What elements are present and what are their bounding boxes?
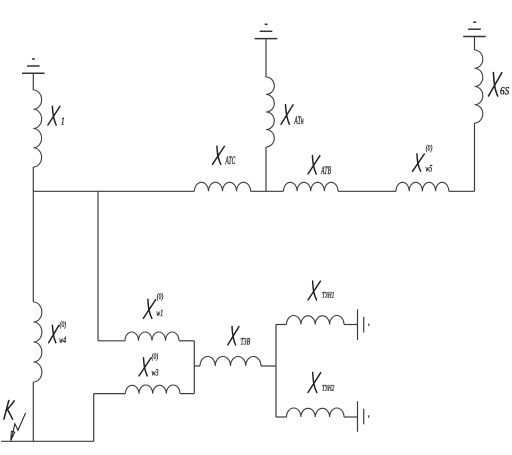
label XATC: [217, 146, 221, 164]
svg-text:ТЗН1: ТЗН1: [322, 289, 334, 300]
ground (T3H2 neutral, sideways): [357, 401, 359, 432]
wire bus down at node: [97, 191, 99, 340]
label X1: [52, 106, 56, 125]
svg-text:(0): (0): [157, 292, 164, 301]
ground (system GS, top right): [463, 36, 486, 38]
wire X1 to bus: [32, 167, 34, 191]
wire mid node vertical: [193, 341, 195, 394]
wire bus down to Xw4: [32, 191, 34, 302]
reactor X1 (coil): [33, 90, 41, 167]
wire down from Xw3 node: [93, 394, 95, 442]
reactance XATC (coil): [194, 182, 250, 191]
reactance Xw3 (0-seq coil): [125, 385, 180, 394]
svg-text:АТВ: АТВ: [320, 164, 331, 177]
ground (T3H1 neutral, sideways): [357, 309, 359, 340]
svg-text:w5: w5: [425, 163, 432, 174]
svg-text:w3: w3: [152, 367, 159, 378]
reactance Xw1 (0-seq coil): [125, 332, 179, 341]
wire bus left segment: [33, 190, 194, 192]
svg-text:1: 1: [61, 116, 65, 128]
svg-text:(0): (0): [60, 320, 67, 329]
ground (autotransformer neutral, top middle): [255, 38, 278, 40]
svg-text:ТЗВ: ТЗВ: [240, 336, 250, 347]
label XATn: [286, 105, 290, 125]
wire to Xw1: [98, 340, 125, 342]
label XATB: [312, 156, 316, 175]
reactance XT3B (coil): [200, 356, 261, 366]
wire ground to XATn: [265, 39, 267, 77]
label Xw3 with (0) superscript: [144, 358, 148, 376]
reactance XGS (coil): [475, 50, 483, 123]
wire XT3H1 to ground: [344, 324, 358, 326]
wire Xw1 to mid node: [179, 340, 194, 342]
wire Xw4 to fault node: [32, 382, 34, 441]
reactance XT3H2 (coil): [287, 408, 345, 417]
reactance XT3H1 (coil): [287, 315, 345, 324]
wire XATn to bus: [265, 147, 267, 191]
label XT3H1: [313, 281, 317, 300]
wire bus right segment: [449, 190, 475, 192]
svg-text:АТС: АТС: [225, 154, 236, 167]
wire split node vertical: [275, 325, 277, 418]
reactance XATB (coil): [284, 182, 339, 191]
label Xw5 with (0) superscript: [417, 154, 421, 172]
wire fault line to Xw3: [94, 393, 126, 395]
svg-text:w1: w1: [156, 308, 163, 319]
reactance Xw5 (0-seq coil): [396, 182, 449, 191]
label K (fault point): [4, 401, 14, 420]
wire XGS to bus: [474, 123, 476, 191]
wire XT3B to split node: [261, 365, 276, 367]
wire split to XT3H1: [276, 324, 287, 326]
reactance Xw4 (0-seq coil): [33, 302, 42, 382]
svg-text:6S: 6S: [500, 86, 510, 98]
label XT3H2: [313, 373, 317, 393]
wire mid node to XT3B: [194, 365, 200, 367]
wire G1 ground to X1: [32, 73, 34, 90]
reactance XATn (coil): [266, 77, 274, 147]
wire fault bottom line: [1, 440, 94, 442]
ground (system G1, top left): [22, 72, 45, 74]
svg-text:АТн: АТн: [294, 114, 304, 127]
label XGS: [493, 73, 497, 97]
svg-text:(0): (0): [152, 352, 159, 361]
svg-text:(0): (0): [426, 144, 433, 153]
label XT3B: [232, 326, 236, 345]
wire bus segment ATB-Xw5: [338, 190, 396, 192]
fault arrow (lightning bolt): [11, 413, 25, 439]
svg-text:w4: w4: [59, 334, 66, 345]
wire ground to XGS: [474, 37, 476, 51]
label Xw4 with (0) superscript: [52, 325, 55, 343]
label Xw1 with (0) superscript: [148, 299, 152, 318]
wire split to XT3H2: [276, 416, 287, 418]
wire bus segment ATC-ATB: [251, 190, 284, 192]
wire XT3H2 to ground: [344, 416, 358, 418]
wire Xw3 to mid node: [180, 393, 194, 395]
svg-text:ТЗН2: ТЗН2: [322, 382, 335, 393]
